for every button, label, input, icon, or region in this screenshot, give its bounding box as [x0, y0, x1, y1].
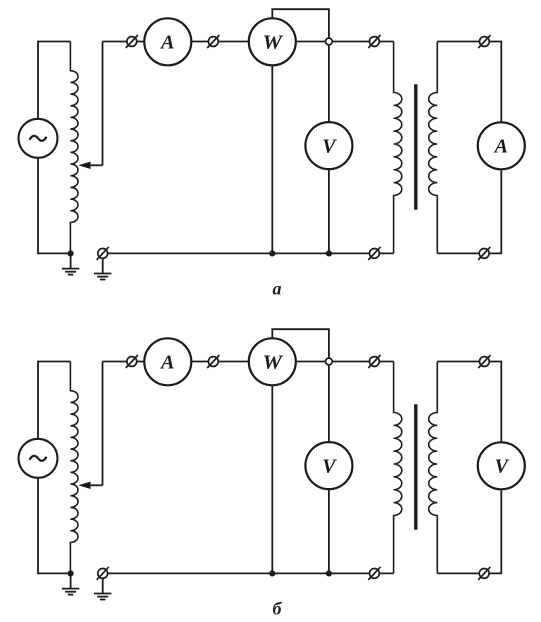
AC source G2 [19, 439, 58, 478]
svg-text:V: V [495, 456, 510, 478]
wire wattmeter voltage coil [272, 329, 329, 358]
svg-text:A: A [493, 136, 508, 158]
terminal [126, 35, 138, 48]
node voltage tap [326, 38, 333, 45]
transformer core [414, 404, 417, 529]
ground [62, 573, 79, 594]
transformer core [414, 84, 417, 209]
terminal [478, 35, 490, 48]
svg-text:V: V [322, 135, 337, 157]
transformer primary winding [394, 362, 402, 574]
voltmeter PV2 [478, 442, 525, 489]
wire tap riser [102, 42, 104, 166]
wire source loop [38, 42, 70, 254]
terminal [368, 355, 380, 368]
wire bottom bus [103, 572, 394, 574]
terminal [368, 247, 380, 260]
terminal grounded [97, 247, 109, 260]
transformer secondary winding [429, 42, 438, 254]
transformer primary winding [394, 42, 402, 254]
terminal [478, 567, 490, 580]
ammeter PA2 [144, 338, 191, 385]
ammeter PA1 [144, 18, 191, 65]
wire tap riser [102, 362, 104, 486]
wire wattmeter voltage coil [272, 9, 329, 38]
junction [326, 250, 332, 256]
ground [62, 253, 79, 274]
node voltage tap [326, 358, 333, 365]
wire top bus [103, 361, 394, 363]
autotransformer T2 winding [70, 362, 78, 574]
wire wattmeter to bottom bus [271, 362, 273, 574]
wattmeter PW2 [249, 338, 296, 385]
ammeter PA2 [478, 122, 525, 169]
junction [269, 250, 275, 256]
terminal [368, 35, 380, 48]
terminal [207, 355, 219, 368]
tap arrow [78, 482, 102, 489]
terminal [478, 355, 490, 368]
ground [94, 578, 111, 599]
wire voltmeter branch [328, 362, 330, 574]
AC source G1 [19, 119, 58, 158]
terminal [478, 247, 490, 260]
wire voltmeter branch [328, 42, 330, 254]
autotransformer T1 winding [70, 42, 78, 254]
junction [269, 570, 275, 576]
junction [68, 250, 74, 256]
svg-text:A: A [159, 352, 174, 374]
wire wattmeter to bottom bus [271, 42, 273, 254]
ground [94, 258, 111, 279]
tap arrow [78, 162, 102, 169]
voltmeter PV1 [305, 122, 352, 169]
wire top bus [103, 41, 394, 43]
svg-text:W: W [263, 32, 284, 54]
wattmeter PW1 [249, 18, 296, 65]
wire secondary loop [437, 362, 501, 574]
terminal [368, 567, 380, 580]
transformer secondary winding [429, 362, 438, 574]
svg-text:а: а [273, 278, 282, 298]
svg-text:б: б [273, 598, 283, 618]
wire bottom bus [103, 252, 394, 254]
svg-text:A: A [159, 32, 174, 54]
voltmeter PV2 [305, 442, 352, 489]
terminal [126, 355, 138, 368]
svg-text:V: V [322, 455, 337, 477]
junction [68, 570, 74, 576]
terminal grounded [97, 567, 109, 580]
svg-text:W: W [263, 352, 284, 374]
terminal [207, 35, 219, 48]
junction [326, 570, 332, 576]
wire secondary loop [437, 42, 501, 254]
wire source loop [38, 362, 70, 574]
